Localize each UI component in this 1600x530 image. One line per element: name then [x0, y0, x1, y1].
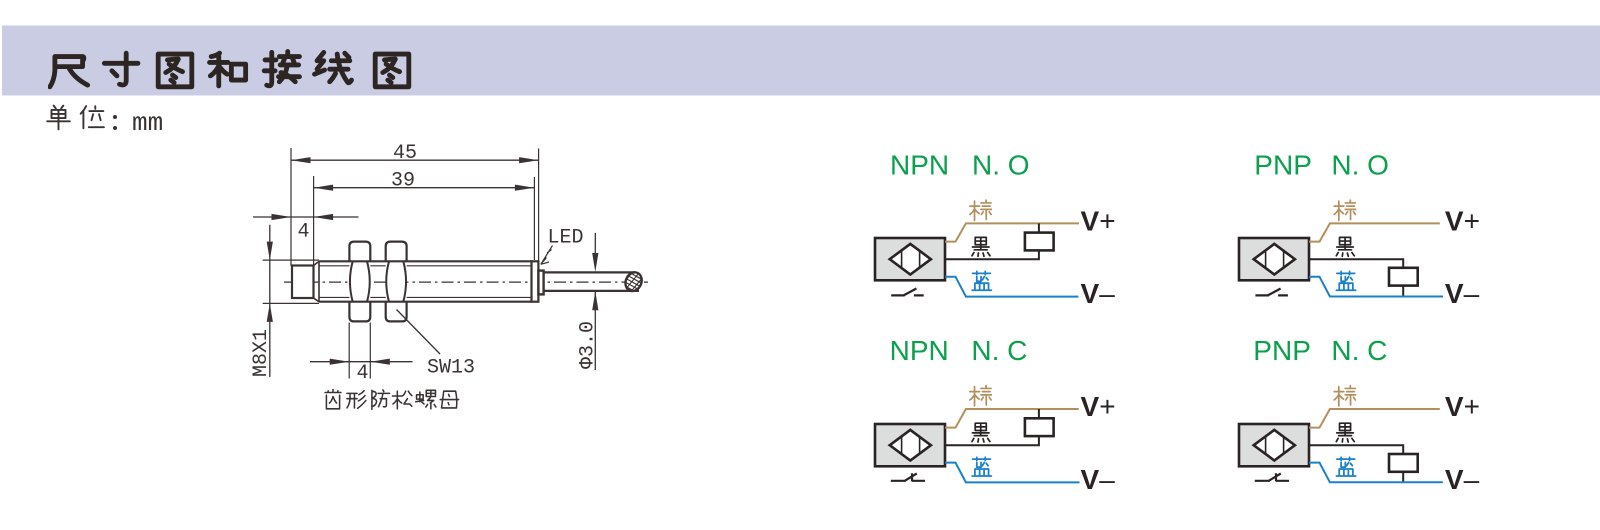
dim line M8 vertical	[269, 225, 271, 377]
sensor U3	[875, 424, 945, 466]
label 蓝 blue	[972, 271, 991, 290]
phi3 dim line	[594, 233, 596, 370]
page title 尺寸图和接线图	[50, 52, 409, 87]
label 黑 black	[972, 423, 990, 442]
nut 2	[386, 242, 407, 322]
svg-text:V–: V–	[1445, 278, 1480, 309]
svg-text:NPN: NPN	[890, 149, 949, 180]
label 棕 brown	[1334, 200, 1356, 220]
svg-text:V–: V–	[1445, 464, 1480, 495]
load R	[1025, 233, 1054, 251]
svg-text:V+: V+	[1081, 206, 1116, 237]
wire brown	[945, 409, 1079, 428]
cable	[544, 272, 639, 291]
svg-text:Φ3.0: Φ3.0	[577, 321, 600, 369]
load R	[1025, 418, 1054, 436]
switch NC	[891, 473, 925, 481]
label 棕 brown	[1334, 386, 1356, 406]
nut 4 arrows (outside)	[330, 359, 350, 365]
extension line tip-left	[290, 148, 292, 266]
SW13 leader	[397, 310, 441, 355]
svg-text:PNP: PNP	[1254, 149, 1312, 180]
extension line 39-right	[533, 177, 535, 260]
wire black	[1309, 445, 1403, 482]
4 tip arrows (outside)	[272, 214, 292, 220]
threaded barrel outline	[319, 261, 532, 301]
label 黑 black	[972, 237, 990, 256]
tip chamfer	[314, 261, 320, 301]
dim line 45	[291, 159, 539, 161]
label 黑 black	[1336, 423, 1354, 442]
svg-text:N. C: N. C	[1331, 335, 1387, 366]
wire black	[945, 409, 1039, 445]
M8 arrows	[267, 242, 273, 261]
wire brown	[1309, 409, 1440, 428]
dim line 4 (nut)	[310, 361, 413, 363]
label 蓝 blue	[972, 457, 991, 476]
cable end cross-section	[623, 270, 645, 294]
body end cap	[532, 261, 539, 301]
svg-text:4: 4	[298, 221, 310, 244]
sensor U4	[1239, 424, 1309, 466]
extension line thread-start	[313, 176, 315, 265]
svg-text:4: 4	[357, 362, 369, 385]
label 齿形防松螺母	[325, 389, 459, 409]
nut blank fills	[349, 260, 406, 303]
svg-text:V+: V+	[1445, 391, 1480, 422]
nut 1	[349, 242, 370, 322]
svg-text:N. O: N. O	[972, 149, 1030, 180]
wire blue	[1309, 277, 1443, 297]
LED leader	[541, 246, 553, 265]
extension line body-right	[538, 149, 540, 263]
wire blue	[945, 277, 1078, 297]
sensor U2	[1239, 238, 1309, 280]
wire blue	[945, 463, 1080, 483]
sensing tip	[292, 266, 314, 299]
header band	[2, 26, 1600, 96]
load R	[1389, 454, 1418, 472]
dimension arrowheads	[267, 157, 599, 365]
unit note 单位：mm	[47, 106, 104, 130]
load R	[1389, 268, 1418, 286]
svg-text:NPN: NPN	[890, 335, 949, 366]
wire black	[1309, 259, 1403, 296]
label 棕 brown	[970, 200, 992, 220]
svg-text:39: 39	[391, 170, 415, 193]
label 棕 brown	[970, 386, 992, 406]
svg-text:V–: V–	[1081, 278, 1116, 309]
thread minor diameter lines	[319, 266, 532, 298]
switch NO	[891, 289, 924, 296]
svg-text:V–: V–	[1081, 464, 1116, 495]
svg-text:mm: mm	[132, 108, 163, 138]
label 蓝 blue	[1336, 271, 1355, 290]
wire blue	[1309, 463, 1443, 483]
switch NC	[1255, 473, 1289, 481]
sensor U1	[875, 238, 945, 280]
wire brown	[945, 223, 1079, 241]
phi3 arrows	[592, 253, 598, 272]
svg-text:V+: V+	[1081, 391, 1116, 422]
svg-text:M8X1: M8X1	[250, 329, 273, 377]
svg-text:N. C: N. C	[971, 335, 1027, 366]
dim line 39	[314, 187, 535, 189]
center line	[284, 281, 648, 283]
nut width ext lines	[349, 323, 370, 379]
svg-text:V+: V+	[1445, 206, 1480, 237]
svg-text:N. O: N. O	[1331, 149, 1389, 180]
39 arrows	[314, 185, 334, 191]
M8 extension lines	[263, 260, 319, 303]
cable bushing	[538, 271, 543, 295]
wire black	[945, 223, 1039, 259]
svg-text:SW13: SW13	[427, 357, 475, 380]
wire brown	[1309, 223, 1440, 241]
label 黑 black	[1336, 237, 1354, 256]
svg-text:45: 45	[393, 142, 417, 165]
45 arrows	[291, 157, 311, 163]
label 蓝 blue	[1336, 457, 1355, 476]
dim line 4 (tip)	[253, 216, 359, 218]
switch NO	[1255, 289, 1288, 296]
svg-text:LED: LED	[548, 227, 584, 250]
svg-text:PNP: PNP	[1253, 335, 1311, 366]
